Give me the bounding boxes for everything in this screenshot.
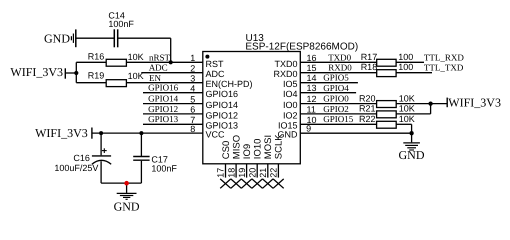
svg-text:IO2: IO2 <box>283 110 298 120</box>
svg-text:10K: 10K <box>399 104 415 114</box>
svg-text:SCLK: SCLK <box>274 134 285 159</box>
svg-text:ESP-12F(ESP8266MOD): ESP-12F(ESP8266MOD) <box>245 41 358 52</box>
svg-text:1: 1 <box>190 53 195 63</box>
svg-text:5: 5 <box>190 94 195 104</box>
svg-text:TTL_RXD: TTL_RXD <box>424 52 464 62</box>
svg-text:10K: 10K <box>399 114 415 124</box>
svg-text:GPIO4: GPIO4 <box>323 83 349 93</box>
svg-text:100nF: 100nF <box>108 19 134 29</box>
svg-text:GND: GND <box>399 148 425 162</box>
svg-text:GPIO16: GPIO16 <box>206 89 239 99</box>
svg-text:TXD0: TXD0 <box>328 52 351 62</box>
svg-text:14: 14 <box>307 73 317 83</box>
svg-text:13: 13 <box>307 83 317 93</box>
svg-text:TXD0: TXD0 <box>274 59 297 69</box>
svg-text:R21: R21 <box>359 104 376 114</box>
svg-text:IO10: IO10 <box>253 139 264 160</box>
svg-text:R19: R19 <box>88 71 105 81</box>
svg-text:EN: EN <box>149 73 161 83</box>
svg-text:ADC: ADC <box>149 63 168 73</box>
svg-text:IO4: IO4 <box>283 89 298 99</box>
svg-text:RXD0: RXD0 <box>273 69 297 79</box>
svg-text:21: 21 <box>258 168 268 178</box>
svg-text:R18: R18 <box>361 62 378 72</box>
svg-text:6: 6 <box>190 105 195 115</box>
svg-text:2: 2 <box>190 63 195 73</box>
svg-text:100: 100 <box>398 52 413 62</box>
svg-text:18: 18 <box>226 168 236 178</box>
svg-text:GPIO14: GPIO14 <box>206 100 239 110</box>
svg-text:WIFI_3V3: WIFI_3V3 <box>10 65 63 79</box>
svg-text:WIFI_3V3: WIFI_3V3 <box>35 126 88 140</box>
svg-text:MISO: MISO <box>231 135 242 159</box>
svg-text:8: 8 <box>190 124 195 134</box>
svg-text:GPIO14: GPIO14 <box>148 94 179 104</box>
svg-text:GPIO5: GPIO5 <box>323 73 349 83</box>
svg-text:MOSI: MOSI <box>263 135 274 159</box>
svg-text:3: 3 <box>190 73 195 83</box>
svg-text:R20: R20 <box>359 93 376 103</box>
svg-text:10K: 10K <box>399 93 415 103</box>
svg-text:17: 17 <box>216 168 226 178</box>
svg-text:IO5: IO5 <box>283 79 298 89</box>
svg-text:GPIO12: GPIO12 <box>206 110 239 120</box>
svg-text:GPIO15: GPIO15 <box>323 114 354 124</box>
svg-text:CS0: CS0 <box>221 141 232 159</box>
svg-text:nRST: nRST <box>149 52 171 62</box>
svg-text:EN(CH-PD): EN(CH-PD) <box>206 79 253 89</box>
svg-text:100uF/25V: 100uF/25V <box>54 163 98 173</box>
svg-text:11: 11 <box>307 104 316 114</box>
svg-text:RXD0: RXD0 <box>328 63 352 73</box>
svg-text:100: 100 <box>398 62 413 72</box>
svg-text:R16: R16 <box>88 51 105 61</box>
svg-text:RST: RST <box>206 59 225 69</box>
svg-text:16: 16 <box>307 53 317 63</box>
svg-text:C16: C16 <box>73 153 90 163</box>
svg-text:10K: 10K <box>128 71 144 81</box>
svg-text:GPIO16: GPIO16 <box>148 83 179 93</box>
svg-text:TTL_TXD: TTL_TXD <box>424 63 464 73</box>
svg-text:GND: GND <box>114 199 140 213</box>
svg-text:GPIO2: GPIO2 <box>323 104 349 114</box>
svg-text:ADC: ADC <box>206 69 226 79</box>
svg-text:20: 20 <box>247 168 257 178</box>
svg-text:GPIO12: GPIO12 <box>148 104 178 114</box>
svg-text:GPIO13: GPIO13 <box>148 114 179 124</box>
svg-text:22: 22 <box>269 168 279 178</box>
svg-text:VCC: VCC <box>206 130 226 140</box>
svg-text:IO0: IO0 <box>283 100 298 110</box>
svg-text:10K: 10K <box>128 52 144 62</box>
svg-text:15: 15 <box>307 63 317 73</box>
svg-text:4: 4 <box>190 83 195 93</box>
svg-text:100nF: 100nF <box>151 163 177 173</box>
svg-text:R17: R17 <box>361 52 378 62</box>
svg-text:19: 19 <box>237 168 247 178</box>
svg-text:WIFI_3V3: WIFI_3V3 <box>448 95 501 109</box>
svg-text:GPIO0: GPIO0 <box>323 94 349 104</box>
svg-text:IO9: IO9 <box>242 144 253 159</box>
svg-text:GND: GND <box>44 31 70 45</box>
svg-text:R22: R22 <box>359 114 376 124</box>
svg-text:12: 12 <box>307 94 317 104</box>
svg-text:9: 9 <box>306 124 311 134</box>
